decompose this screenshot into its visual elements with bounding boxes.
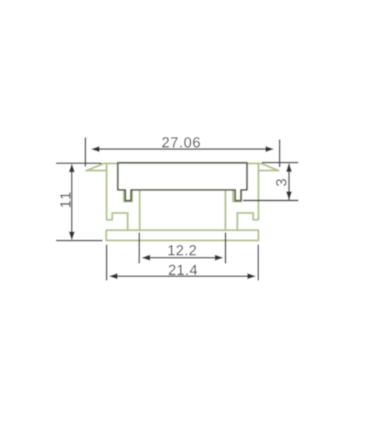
profile left flange top edge (slanted tip and flat seat) — [87, 163, 119, 170]
dimension 12.2 left extension line — [138, 233, 140, 264]
dimension 3 top arrowhead — [286, 163, 292, 172]
profile left cover-foot slot — [124, 190, 132, 201]
dimension 21.4 left extension line — [106, 245, 108, 281]
profile left flange underside — [87, 170, 107, 172]
dimension 11 top extension line — [56, 162, 102, 164]
dimension text 3 (rotated) — [276, 179, 286, 186]
dimension text 27.06 — [162, 137, 200, 147]
dimension 27.06 left arrowhead — [91, 146, 100, 152]
profile LED channel right wall — [224, 191, 226, 231]
dimension 11 bottom arrowhead — [69, 232, 75, 241]
dimension 12.2 dimension line — [148, 257, 217, 259]
profile left outer wall with spring-clip groove — [107, 164, 128, 231]
dimension text 11 (rotated) — [60, 192, 70, 207]
dimension 3 top extension line — [262, 162, 298, 164]
diffuser cover outline with clip feet — [118, 163, 247, 201]
dimension 21.4 right extension line — [257, 245, 259, 281]
profile right flange top edge (flat seat and slanted tip) — [247, 163, 279, 170]
dimension 12.2 left arrowhead — [142, 255, 151, 261]
dimension 27.06 dimension line — [98, 148, 267, 150]
profile base plate — [106, 230, 258, 240]
dimension 11 dimension line — [71, 165, 73, 239]
dimension 3 bottom extension line — [243, 200, 298, 202]
dimension 27.06 right extension line — [279, 140, 281, 168]
dimension 21.4 left arrowhead — [109, 273, 118, 279]
dimension 27.06 right arrowhead — [266, 146, 275, 152]
dimension 12.2 right arrowhead — [215, 255, 224, 261]
profile right outer wall with spring-clip groove — [237, 164, 258, 231]
dimension 3 dimension line — [288, 164, 290, 200]
dimension 27.06 left extension line — [84, 138, 86, 167]
profile right cover-foot slot — [233, 190, 241, 201]
dimension 21.4 dimension line — [115, 275, 250, 277]
dimension 11 top arrowhead — [69, 164, 75, 173]
dimension text 12.2 — [168, 245, 196, 255]
profile right flange underside — [258, 170, 278, 172]
dimension 11 bottom extension line — [56, 240, 103, 242]
dimension 12.2 right extension line — [225, 233, 227, 264]
dimension 21.4 right arrowhead — [247, 273, 256, 279]
profile LED channel left wall — [139, 191, 141, 231]
dimension 3 bottom arrowhead — [286, 192, 292, 201]
dimension text 21.4 — [169, 265, 197, 275]
